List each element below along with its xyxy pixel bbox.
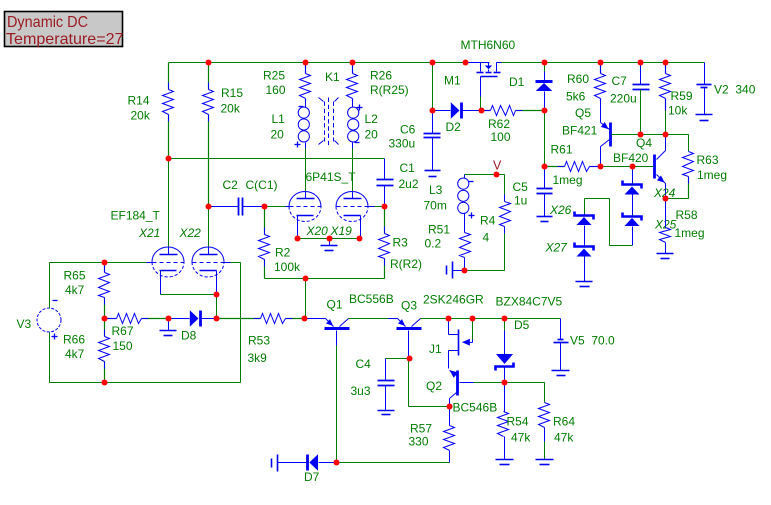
inductor L3 bbox=[424, 175, 475, 219]
svg-text:160: 160 bbox=[266, 83, 286, 97]
svg-text:BC556B: BC556B bbox=[349, 292, 394, 306]
node D5 top bbox=[502, 316, 508, 322]
capacitor C6 bbox=[389, 111, 441, 171]
wire X21 cathode run bbox=[161, 294, 217, 296]
resistor R64 bbox=[505, 383, 576, 460]
node bus-C7 bbox=[638, 60, 644, 66]
diode D1 bbox=[509, 63, 553, 111]
svg-text:70m: 70m bbox=[424, 198, 447, 212]
svg-text:Q5: Q5 bbox=[575, 106, 591, 120]
resistor R61 bbox=[545, 143, 601, 188]
resistor R14 bbox=[128, 63, 174, 159]
node C4 tee bbox=[407, 356, 413, 362]
ground under R54 bbox=[496, 460, 514, 465]
diode D2 bbox=[433, 102, 482, 134]
ground cathode bus bbox=[321, 239, 338, 251]
transformer core K1 bbox=[319, 70, 341, 147]
resistor R4 bbox=[480, 175, 511, 271]
ground under V5 bbox=[552, 371, 570, 376]
node cathode ground tee bbox=[327, 236, 333, 242]
node J1 drain bbox=[446, 316, 452, 322]
svg-text:Q2: Q2 bbox=[426, 379, 442, 393]
triode X22 bbox=[179, 226, 231, 295]
node bus-R59 bbox=[663, 60, 669, 66]
resistor R15 bbox=[203, 63, 244, 207]
svg-text:R62: R62 bbox=[488, 117, 510, 131]
wire V3 loop bottom bbox=[50, 382, 241, 384]
svg-text:1meg: 1meg bbox=[675, 226, 705, 240]
wire down to Q1 node bbox=[305, 279, 307, 319]
transistor Q1 BC556B bbox=[305, 292, 394, 463]
svg-text:X26: X26 bbox=[549, 203, 572, 217]
resistor R67 bbox=[105, 314, 169, 354]
wire Q5 base bus bbox=[612, 134, 689, 136]
svg-text:R(R25): R(R25) bbox=[370, 83, 409, 97]
transistor Q4 BF420 bbox=[613, 135, 666, 199]
node X24-R58 bbox=[663, 196, 669, 202]
node Q2 collector bbox=[447, 404, 453, 410]
wire top supply bus left segment bbox=[169, 62, 468, 64]
node V bbox=[494, 172, 500, 178]
ground under C5 bbox=[537, 217, 553, 222]
resistor R66 bbox=[63, 319, 110, 383]
svg-text:C1: C1 bbox=[400, 161, 416, 175]
node R65 top bbox=[102, 260, 108, 266]
svg-text:Q1: Q1 bbox=[327, 298, 343, 312]
resistor R57 bbox=[409, 407, 455, 463]
svg-text:R53: R53 bbox=[248, 334, 270, 348]
inductor L1 bbox=[271, 102, 310, 149]
svg-text:C7: C7 bbox=[612, 74, 628, 88]
svg-text:X21: X21 bbox=[138, 226, 160, 240]
svg-text:3k9: 3k9 bbox=[248, 351, 268, 365]
wire top supply bus right segment bbox=[502, 62, 705, 64]
svg-text:D1: D1 bbox=[509, 75, 525, 89]
ground under V2 bbox=[696, 115, 713, 121]
svg-text:47k: 47k bbox=[554, 431, 574, 445]
node C2-R2 bbox=[262, 204, 268, 210]
wire R15 column down to tube X22 plate bbox=[208, 128, 210, 248]
wire R63 bottom to X24 node bbox=[666, 198, 689, 200]
svg-text:X20: X20 bbox=[306, 224, 329, 238]
node M1 gate bbox=[479, 108, 485, 114]
battery V5 bbox=[554, 319, 616, 371]
svg-text:D5: D5 bbox=[514, 318, 530, 332]
resistor R25 bbox=[263, 63, 311, 102]
svg-text:BF420: BF420 bbox=[613, 151, 649, 165]
node D2-C6 bbox=[430, 108, 436, 114]
svg-text:4k7: 4k7 bbox=[65, 347, 85, 361]
svg-text:20k: 20k bbox=[221, 101, 241, 115]
svg-text:R15: R15 bbox=[221, 86, 243, 100]
capacitor C1 bbox=[377, 159, 419, 207]
zener diode D5 BZX84C7V5 bbox=[496, 294, 563, 382]
svg-text:Q3: Q3 bbox=[401, 299, 417, 313]
svg-text:BC546B: BC546B bbox=[453, 401, 498, 415]
wire X22 cathode down to node bbox=[216, 295, 218, 319]
svg-text:R58: R58 bbox=[676, 208, 698, 222]
ground under C6 bbox=[425, 171, 441, 177]
svg-text:220u: 220u bbox=[610, 92, 637, 106]
zener diode X26 bbox=[549, 203, 594, 246]
battery V2 bbox=[697, 63, 756, 115]
node Q1 emitter bbox=[302, 316, 308, 322]
ground under R58 bbox=[657, 254, 674, 259]
svg-text:5k6: 5k6 bbox=[566, 90, 586, 104]
svg-text:100: 100 bbox=[491, 130, 511, 144]
wire Q1 to Q3 bbox=[349, 318, 398, 320]
resistor R58 bbox=[660, 199, 705, 254]
node R51-R4 bbox=[462, 268, 468, 274]
ground under C4 bbox=[378, 411, 395, 415]
wire R59 bottom to bus 134.5 bbox=[665, 111, 667, 135]
resistor R2 bbox=[259, 207, 302, 279]
svg-text:Q4: Q4 bbox=[636, 136, 652, 150]
inductor L2 bbox=[348, 102, 379, 149]
wire grid feed from V3 divider bbox=[50, 262, 147, 264]
wire node 544 down bbox=[544, 111, 546, 167]
svg-text:2u2: 2u2 bbox=[399, 177, 419, 191]
svg-text:R(R2): R(R2) bbox=[390, 257, 422, 271]
node R61 right bbox=[598, 164, 604, 170]
svg-text:R66: R66 bbox=[63, 332, 85, 346]
wire X25 anode to X26 cathode dogleg bbox=[585, 199, 633, 246]
svg-text:R2: R2 bbox=[275, 246, 291, 260]
svg-text:10k: 10k bbox=[668, 104, 688, 118]
diode D7 bbox=[282, 454, 337, 484]
svg-text:D7: D7 bbox=[304, 470, 320, 484]
zener diode X24 bbox=[623, 167, 676, 216]
node D1-R62 bbox=[542, 108, 548, 114]
node name V bbox=[493, 159, 502, 173]
svg-text:R61: R61 bbox=[551, 143, 573, 157]
node R66 bottom bbox=[102, 380, 108, 386]
transistor Q2 BC546B bbox=[426, 370, 505, 414]
svg-text:R60: R60 bbox=[567, 72, 589, 86]
svg-text:R63: R63 bbox=[697, 153, 719, 167]
svg-text:L1: L1 bbox=[272, 112, 286, 126]
svg-text:C4: C4 bbox=[356, 357, 372, 371]
resistor R51 bbox=[425, 217, 471, 271]
svg-text:20: 20 bbox=[271, 128, 285, 142]
resistor R62 bbox=[482, 106, 545, 145]
wire C2 to X20 grid bbox=[265, 206, 286, 208]
zener diode X27 bbox=[545, 241, 594, 282]
svg-text:R3: R3 bbox=[393, 236, 409, 250]
wire R2/R3 bottom bus bbox=[265, 278, 385, 280]
svg-text:L2: L2 bbox=[365, 112, 379, 126]
node bus-R26 bbox=[350, 60, 356, 66]
wire M1 gate down bbox=[480, 77, 482, 111]
node X19 cathode bbox=[357, 236, 363, 242]
capacitor C4 bbox=[351, 357, 410, 411]
svg-text:C5: C5 bbox=[513, 180, 529, 194]
svg-text:BF421: BF421 bbox=[562, 124, 598, 138]
node bus-R60 bbox=[598, 60, 604, 66]
node R2-R3 bus bbox=[303, 276, 309, 282]
svg-text:3u3: 3u3 bbox=[351, 384, 371, 398]
node D5-R54 bbox=[502, 380, 508, 386]
resistor R59 bbox=[660, 63, 693, 118]
resistor R3 bbox=[379, 207, 423, 279]
ground at D8 anode node bbox=[160, 319, 177, 336]
svg-text:R14: R14 bbox=[128, 94, 150, 108]
svg-text:BZX84C7V5: BZX84C7V5 bbox=[496, 294, 563, 308]
diode D8 bbox=[169, 310, 217, 342]
node C7-bus bbox=[638, 132, 644, 138]
svg-text:D8: D8 bbox=[181, 329, 197, 343]
svg-text:K1: K1 bbox=[325, 70, 340, 84]
node R67 left bbox=[102, 316, 108, 322]
transistor Q5 BF421 bbox=[562, 102, 611, 167]
resistor R63 bbox=[683, 152, 728, 199]
svg-text:330: 330 bbox=[409, 435, 429, 449]
wire L1 to tube X20 plate bbox=[305, 149, 307, 193]
svg-text:C(C1): C(C1) bbox=[246, 178, 278, 192]
svg-text:EF184_T: EF184_T bbox=[111, 209, 161, 223]
triode X21 EF184_T bbox=[111, 209, 185, 295]
svg-text:4: 4 bbox=[483, 231, 490, 245]
node J1 gate bbox=[470, 316, 476, 322]
node bus-D1 bbox=[542, 60, 548, 66]
svg-text:2SK246GR: 2SK246GR bbox=[423, 293, 484, 307]
svg-text:20k: 20k bbox=[131, 109, 151, 123]
node bus-M1 bbox=[463, 60, 469, 66]
capacitor C5 bbox=[513, 167, 553, 217]
wire R14 column down to tube X21 plate bbox=[168, 128, 170, 248]
svg-text:1meg: 1meg bbox=[553, 173, 583, 187]
wire Q3 to J1 nodes bbox=[421, 318, 561, 320]
resistor R54 bbox=[498, 383, 532, 460]
svg-text:R54: R54 bbox=[507, 415, 529, 429]
capacitor C7 bbox=[610, 63, 650, 135]
node bus-R15 bbox=[206, 60, 212, 66]
wire D7 to R57 bottom bbox=[337, 462, 450, 464]
wire node V horizontal bbox=[465, 174, 505, 176]
svg-text:C2: C2 bbox=[223, 178, 239, 192]
resistor R26 bbox=[347, 63, 409, 102]
svg-text:Temperature=27: Temperature=27 bbox=[6, 31, 124, 48]
triode X19 bbox=[330, 192, 375, 240]
node X24 top bbox=[630, 164, 636, 170]
svg-text:J1: J1 bbox=[429, 342, 442, 356]
svg-text:V2 340: V2 340 bbox=[714, 83, 756, 97]
node D8 anode bbox=[166, 316, 172, 322]
svg-text:R65: R65 bbox=[64, 269, 86, 283]
ground left of D7 bbox=[272, 455, 282, 472]
svg-text:1u: 1u bbox=[514, 193, 527, 207]
wire Q3 collector to Q2 collector node bbox=[409, 359, 450, 407]
node C2 left bbox=[206, 204, 212, 210]
svg-text:X22: X22 bbox=[179, 226, 202, 240]
svg-text:0.2: 0.2 bbox=[425, 237, 442, 251]
svg-text:M1: M1 bbox=[444, 74, 461, 88]
svg-text:4k7: 4k7 bbox=[65, 283, 85, 297]
zener diode X25 bbox=[623, 213, 677, 246]
node X20 cathode bbox=[295, 236, 301, 242]
svg-text:Dynamic DC: Dynamic DC bbox=[7, 14, 88, 31]
svg-text:R51: R51 bbox=[428, 223, 450, 237]
node bus-R25 bbox=[303, 60, 309, 66]
svg-text:6P41S_T: 6P41S_T bbox=[306, 170, 357, 184]
svg-text:X19: X19 bbox=[330, 224, 353, 238]
svg-text:V: V bbox=[493, 159, 502, 173]
annotation box Dynamic DC / Temperature=27 bbox=[5, 12, 124, 49]
ground under R64 bbox=[536, 460, 554, 465]
triode X20 6P41S_T bbox=[284, 170, 357, 240]
svg-text:R57: R57 bbox=[410, 422, 432, 436]
wire R63 top corner bbox=[688, 135, 690, 152]
node D7-Q1 bbox=[334, 460, 340, 466]
svg-text:330u: 330u bbox=[389, 137, 416, 151]
wire X19 grid to node bbox=[375, 206, 385, 208]
svg-text:100k: 100k bbox=[274, 260, 301, 274]
svg-text:D2: D2 bbox=[446, 120, 462, 134]
wire X20/X19 cathode bus bbox=[298, 238, 360, 240]
node bus-D2 bbox=[430, 60, 436, 66]
svg-text:MTH6N60: MTH6N60 bbox=[461, 38, 516, 52]
svg-text:L3: L3 bbox=[429, 183, 443, 197]
svg-text:1meg: 1meg bbox=[697, 168, 727, 182]
wire R51 node to R4 bottom bbox=[465, 270, 505, 272]
svg-text:47k: 47k bbox=[511, 431, 531, 445]
svg-text:R4: R4 bbox=[480, 214, 496, 228]
node R53 left bbox=[214, 316, 220, 322]
node C1-R3 bbox=[382, 204, 388, 210]
resistor R60 bbox=[566, 63, 606, 104]
svg-text:C6: C6 bbox=[400, 123, 416, 137]
svg-text:150: 150 bbox=[113, 339, 133, 353]
MOSFET M1 MTH6N60 bbox=[444, 38, 516, 88]
capacitor C2 bbox=[209, 178, 278, 215]
wire feedback bus bbox=[169, 158, 385, 160]
svg-text:V3: V3 bbox=[17, 317, 32, 331]
JFET J1 bbox=[429, 319, 473, 369]
svg-text:R67: R67 bbox=[112, 324, 134, 338]
svg-text:R26: R26 bbox=[370, 69, 392, 83]
voltage source V3 bbox=[17, 263, 62, 383]
node R61 left bbox=[542, 164, 548, 170]
transistor Q3 bbox=[389, 293, 485, 359]
wire R61 to Q4 base bbox=[601, 166, 654, 168]
resistor R53 bbox=[217, 314, 305, 366]
node cathode join bbox=[214, 292, 220, 298]
ground left of R51 node bbox=[447, 262, 465, 279]
wire L2 to tube X19 plate bbox=[352, 149, 354, 193]
node R59-Q4 bbox=[663, 132, 669, 138]
svg-text:V5 70.0: V5 70.0 bbox=[570, 334, 615, 348]
wire X22 grid to right bbox=[231, 263, 241, 383]
resistor R65 bbox=[64, 263, 110, 319]
svg-text:R64: R64 bbox=[553, 415, 575, 429]
node R14-bus bbox=[166, 156, 172, 162]
svg-text:X27: X27 bbox=[545, 241, 569, 255]
svg-text:20: 20 bbox=[365, 128, 379, 142]
svg-text:R59: R59 bbox=[671, 89, 693, 103]
ground under X27 bbox=[576, 282, 593, 287]
svg-text:R25: R25 bbox=[263, 69, 285, 83]
wire bus to node 432/110.5 bbox=[432, 63, 434, 111]
